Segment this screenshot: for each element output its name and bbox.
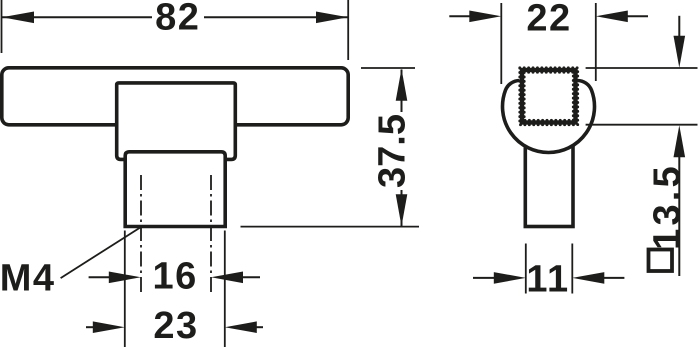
dimension 23: extension line right <box>224 231 226 347</box>
leader line from M4 to thread centerline <box>61 227 141 278</box>
svg-text:16: 16 <box>153 256 198 298</box>
dimension 11: extension line right <box>571 244 573 294</box>
dimension 16: arrow right (pointing left) <box>238 276 260 278</box>
svg-text:11: 11 <box>526 259 569 301</box>
dimension 82: extension line left <box>1 0 3 53</box>
dimension 13.5: extension line bottom <box>586 124 698 126</box>
dimension 82: line left segment <box>2 16 152 18</box>
dimension 16: arrow left (pointing right) <box>89 276 112 278</box>
dimension 82: arrow left <box>2 12 34 24</box>
dimension 22: arrow right (pointing left) <box>624 15 648 17</box>
dimension 37.5: extension line bottom <box>241 226 420 228</box>
dimension 13.5: extension line top <box>586 67 698 69</box>
knurl bumps outer <box>520 68 578 125</box>
dimension 23: arrow right (pointing left) <box>252 326 263 328</box>
round pedestal (22mm) outline <box>503 81 595 153</box>
dimension 13.5: arrow down <box>674 36 686 68</box>
svg-text:37.5: 37.5 <box>372 114 414 188</box>
dimension 22: arrow left (pointing right) <box>449 15 472 17</box>
round pedestal (22mm) body fill <box>503 81 595 153</box>
dimension 11: arrow left (pointing right) <box>473 277 496 279</box>
threaded stud (11mm) side view <box>525 140 573 227</box>
svg-text:82: 82 <box>155 0 200 39</box>
knurl bumps inner <box>524 72 573 120</box>
centerline left (M4 thread, dash-dot) <box>140 175 142 292</box>
dimension 22: extension line left <box>500 3 502 84</box>
svg-text:23: 23 <box>153 305 198 347</box>
square symbol of dimension 13.5 <box>649 250 673 272</box>
dimension 82: arrow right <box>316 12 348 24</box>
knurled square border <box>522 70 576 123</box>
svg-text:M4: M4 <box>0 258 55 300</box>
dimension 23: extension line left <box>124 231 126 347</box>
svg-text:22: 22 <box>526 0 571 39</box>
dimension 37.5: line lower segment <box>401 190 403 226</box>
dimension 22: extension line right <box>595 3 597 81</box>
dimension 11: extension line left <box>525 244 527 294</box>
pedestal / screw boss (23mm) <box>125 152 225 227</box>
dimension 82: line right segment <box>204 16 348 18</box>
dimension 82: extension line right <box>347 0 349 60</box>
dimension 11: arrow right (pointing left) <box>601 277 624 279</box>
bar (82mm T-bar, front view) <box>2 68 348 125</box>
centerline right (dash-dot) <box>210 175 212 292</box>
dimension 23: arrow left (pointing right) <box>86 326 98 328</box>
dimension 37.5: arrow down <box>396 194 408 226</box>
svg-text:13.5: 13.5 <box>647 163 689 250</box>
dimension 13.5: line lower segment <box>678 152 680 276</box>
dimension 37.5: line upper segment <box>401 70 403 113</box>
dimension 13.5: arrow up <box>674 125 686 157</box>
collar (neck piece in front of bar) <box>117 83 236 159</box>
dimension 37.5: extension line top <box>361 67 415 69</box>
dimension 37.5: arrow up <box>396 69 408 101</box>
knurled square bar end (13.5 square) fill <box>520 68 578 125</box>
dimension 13.5: line upper segment <box>678 16 680 40</box>
